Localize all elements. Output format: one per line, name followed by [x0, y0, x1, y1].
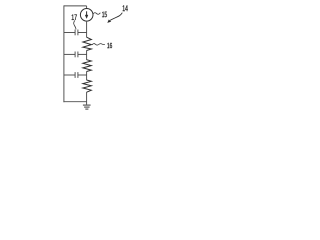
- ground: [83, 105, 91, 109]
- wire rail R1 to R2: [86, 50, 88, 60]
- tap wire 3 left: [64, 74, 75, 76]
- label 14: [123, 5, 128, 11]
- wire rail R2 to R3: [86, 71, 88, 80]
- capacitor 17 right plate (tap 1): [77, 30, 79, 36]
- capacitor right plate (tap 3): [77, 72, 79, 78]
- label 15: [102, 12, 107, 18]
- wire rail R3 to ground: [86, 92, 88, 105]
- leader squiggle to label 15: [93, 13, 101, 15]
- wire stub above current source: [86, 6, 88, 9]
- current source arrow: [85, 11, 88, 18]
- leader arrow from label 14: [107, 13, 122, 23]
- resistor 16 (R1): [83, 37, 92, 50]
- label 16: [107, 43, 112, 48]
- wire bottom rail: [63, 101, 86, 103]
- leader squiggle to label 16: [92, 44, 105, 46]
- tap wire 1 right: [78, 32, 87, 34]
- wire right rail circle to R1: [86, 21, 88, 38]
- wire top rail: [64, 5, 87, 7]
- capacitor 17 left plate (tap 1): [74, 30, 76, 36]
- label 17: [72, 14, 77, 19]
- resistor (R3): [83, 80, 91, 92]
- resistor (R2): [83, 60, 91, 72]
- leader squiggle from label 17 to capacitor: [74, 20, 76, 29]
- capacitor left plate (tap 2): [74, 52, 76, 58]
- tap wire 2 left: [64, 53, 75, 55]
- wire left rail: [63, 5, 65, 102]
- current source 15 (circle): [80, 9, 93, 22]
- tap wire 2 right: [78, 53, 87, 55]
- capacitor left plate (tap 3): [74, 72, 76, 78]
- tap wire 3 right: [78, 74, 87, 76]
- tap wire 1 left: [64, 32, 75, 34]
- capacitor right plate (tap 2): [77, 52, 79, 58]
